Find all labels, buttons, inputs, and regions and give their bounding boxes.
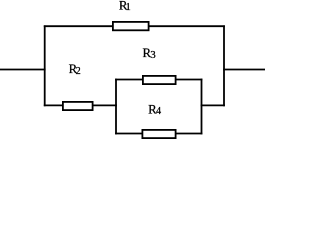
svg-text:1: 1 xyxy=(126,2,131,13)
svg-text:4: 4 xyxy=(156,106,161,117)
label R3 xyxy=(143,46,157,61)
wire: left vertical bus xyxy=(44,25,46,106)
wire: right vertical bus xyxy=(223,25,225,106)
wire: R4 branch left of R4 xyxy=(115,133,142,135)
wire: output lead right xyxy=(223,69,265,71)
resistor R4 body xyxy=(142,130,175,138)
wire: R2 row right of R2 xyxy=(93,104,117,106)
wire: R2 row left of R2 xyxy=(44,104,63,106)
wire: connector parallel block to right bus xyxy=(201,104,225,106)
svg-text:3: 3 xyxy=(150,49,156,61)
label R2 xyxy=(69,62,81,77)
wire: parallel block right vertical xyxy=(201,79,203,135)
wire: parallel block left vertical xyxy=(115,79,117,135)
wire: R4 branch right of R4 xyxy=(176,133,203,135)
wire: top branch left of R1 xyxy=(44,25,113,27)
label R1 xyxy=(119,0,131,13)
resistor R1 body xyxy=(113,22,149,30)
wire: R3 branch left of R3 xyxy=(115,79,143,81)
label R4 xyxy=(148,102,161,117)
wire: top branch right of R1 xyxy=(149,25,225,27)
wire: input lead left xyxy=(0,69,46,71)
svg-text:2: 2 xyxy=(76,66,81,77)
resistor R3 body xyxy=(143,76,176,84)
wire: R3 branch right of R3 xyxy=(176,79,203,81)
resistor R2 body xyxy=(63,102,93,110)
